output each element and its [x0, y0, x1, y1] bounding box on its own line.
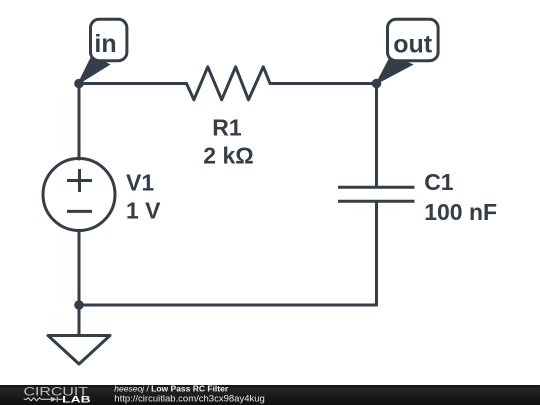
node flag "in" — [78, 19, 127, 84]
svg-text:out: out — [393, 30, 433, 58]
svg-text:100 nF: 100 nF — [424, 199, 497, 225]
wire: ground stub — [78, 305, 81, 336]
wire: left rail lower (V1 to bottom rail) — [78, 231, 81, 306]
junction dot: ground node — [74, 300, 84, 310]
svg-text:in: in — [94, 30, 116, 58]
svg-text:V1: V1 — [126, 170, 154, 196]
wire: bottom rail — [79, 304, 377, 307]
svg-text:http://circuitlab.com/ch3cx98a: http://circuitlab.com/ch3cx98ay4kug — [114, 394, 264, 405]
capacitor C1 plates — [338, 187, 415, 201]
svg-text:LAB: LAB — [62, 395, 91, 405]
voltage source V1 — [43, 159, 115, 231]
footer logo squiggle and diode — [24, 397, 63, 402]
svg-text:C1: C1 — [424, 169, 454, 195]
svg-text:1 V: 1 V — [126, 198, 161, 224]
svg-text:heeseoj / Low Pass RC Filter: heeseoj / Low Pass RC Filter — [114, 383, 229, 393]
ground symbol — [48, 336, 110, 365]
wire: left rail upper (in node to V1) — [78, 84, 81, 160]
footer bar — [0, 385, 540, 405]
wire: top rail left (in node to R1) — [79, 82, 187, 85]
svg-text:R1: R1 — [212, 115, 242, 141]
junction dot: out node — [372, 79, 382, 89]
wire: right rail upper (out node to C1) — [375, 84, 378, 187]
wire: top rail right (R1 to out node) — [270, 82, 377, 85]
svg-text:2 kΩ: 2 kΩ — [203, 143, 253, 169]
resistor R1 zigzag — [187, 67, 271, 100]
junction dot: in node — [74, 79, 84, 89]
node flag "out" — [376, 19, 438, 84]
wire: right rail lower (C1 to bottom rail) — [375, 203, 378, 306]
